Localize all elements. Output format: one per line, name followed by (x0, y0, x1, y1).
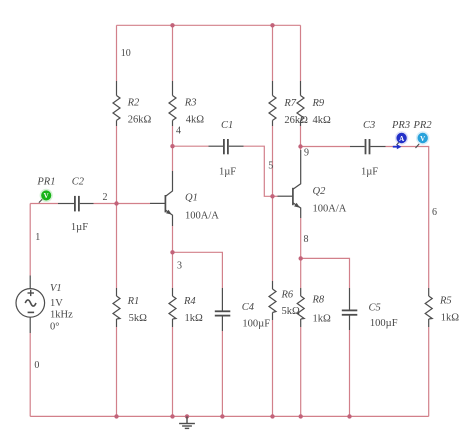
svg-text:5: 5 (268, 161, 273, 172)
junction ground rail R8 (299, 414, 303, 418)
wire R7 bottom to node 5 (272, 126, 274, 196)
wire R4 bottom to ground rail (172, 327, 174, 416)
resistor R3 (169, 81, 176, 126)
wire Q1 emitter to node 3 (172, 226, 174, 252)
junction node 5 (270, 194, 274, 198)
wire ground rail (30, 415, 429, 417)
wire node 8 to C5 (301, 258, 350, 288)
wire R3 bottom to node 4 (172, 126, 174, 146)
svg-text:100µF: 100µF (370, 318, 398, 329)
svg-text:V: V (420, 135, 425, 143)
wire node 5 to R6 (272, 196, 274, 281)
svg-text:R2: R2 (127, 97, 140, 108)
junction ground rail C5 (347, 414, 351, 418)
probe PR3 (393, 131, 409, 149)
wire node 2 to Q1 base (117, 203, 151, 205)
resistor R5 (425, 288, 432, 327)
wire node 3 to C4 (173, 252, 223, 288)
wire C5 bottom to ground rail (349, 330, 351, 416)
probe PR1 (39, 189, 53, 203)
wire Q2 emitter to node 8 (300, 218, 302, 258)
svg-text:8: 8 (304, 234, 309, 245)
wire C3 to output node 6 (386, 147, 429, 289)
svg-text:0: 0 (34, 360, 39, 371)
capacitor C4 (215, 288, 231, 331)
junction node 10 left (170, 23, 174, 27)
wire R8 bottom to ground rail (300, 327, 302, 416)
wire R2 bottom to node 2 (116, 126, 118, 204)
wire R2 top vertical (116, 25, 118, 81)
transistor Q1 (150, 171, 173, 226)
resistor R7 (269, 81, 276, 126)
svg-text:R6: R6 (281, 289, 294, 300)
svg-text:0°: 0° (50, 322, 59, 333)
wire input node 1 vertical (29, 204, 31, 276)
svg-text:R7: R7 (283, 98, 296, 109)
svg-text:26kΩ: 26kΩ (128, 114, 152, 125)
junction node 8 (299, 256, 303, 260)
capacitor C1 (209, 139, 244, 154)
svg-text:R8: R8 (312, 295, 325, 306)
wire R9 bottom to node 9 (300, 126, 302, 150)
svg-text:1: 1 (35, 232, 40, 243)
svg-text:100µF: 100µF (242, 319, 270, 330)
svg-text:1kΩ: 1kΩ (185, 313, 204, 324)
svg-text:6: 6 (432, 207, 437, 218)
svg-text:C1: C1 (221, 120, 233, 131)
wire node 3 to R4 (172, 252, 174, 288)
svg-text:1µF: 1µF (71, 222, 88, 233)
junction ground rail R1 (114, 414, 118, 418)
svg-text:PR1: PR1 (36, 177, 55, 188)
svg-text:Q2: Q2 (313, 186, 327, 197)
junction node 10 right (270, 23, 274, 27)
wire R3 top vertical (172, 25, 174, 81)
wire node 2 to R1 (116, 204, 118, 289)
svg-text:1kΩ: 1kΩ (313, 313, 332, 324)
wire top rail node 10 (117, 24, 301, 26)
wire C4 bottom to ground rail (221, 331, 223, 416)
svg-text:1kHz: 1kHz (50, 310, 73, 321)
transistor Q2 (278, 150, 301, 218)
wire R7 top vertical (272, 25, 274, 81)
svg-text:C2: C2 (72, 177, 85, 188)
wire node 4 to Q1 collector (172, 146, 174, 171)
svg-text:5kΩ: 5kΩ (282, 306, 301, 317)
svg-text:1µF: 1µF (219, 167, 236, 178)
wire R5 bottom to ground rail (428, 327, 430, 416)
svg-text:Q1: Q1 (185, 193, 198, 204)
capacitor C5 (342, 288, 358, 330)
svg-text:V1: V1 (50, 283, 62, 294)
wire V1 bottom node 0 (29, 333, 31, 416)
ground (179, 416, 195, 428)
svg-text:V: V (44, 192, 49, 200)
svg-text:10: 10 (121, 48, 131, 59)
resistor R6 (269, 281, 276, 320)
svg-text:5kΩ: 5kΩ (129, 313, 148, 324)
source V1 (16, 276, 45, 334)
svg-text:100A/A: 100A/A (313, 204, 347, 215)
resistor R4 (169, 288, 176, 327)
svg-text:26kΩ: 26kΩ (284, 115, 308, 126)
junction node 2 (114, 201, 118, 205)
svg-text:1V: 1V (50, 298, 63, 309)
wire input to C2 (30, 203, 58, 205)
svg-text:1µF: 1µF (361, 167, 378, 178)
svg-text:PR2: PR2 (413, 120, 433, 131)
wire C2 to node 2 (94, 203, 117, 205)
svg-text:R3: R3 (184, 97, 197, 108)
junction ground rail R6 (270, 414, 274, 418)
wire node 5 to Q2 base (273, 195, 278, 197)
svg-text:R5: R5 (439, 296, 452, 307)
svg-text:4kΩ: 4kΩ (186, 114, 205, 125)
wire node 8 to R8 (300, 258, 302, 288)
svg-text:4kΩ: 4kΩ (313, 115, 332, 126)
resistor R1 (113, 288, 120, 327)
capacitor C3 (350, 139, 386, 154)
svg-text:1kΩ: 1kΩ (441, 313, 460, 324)
svg-text:9: 9 (304, 148, 309, 159)
junction node 9 (298, 144, 302, 148)
wire node 4 to C1 (173, 145, 209, 147)
svg-text:C3: C3 (363, 120, 375, 131)
wire R1 bottom to ground rail (116, 327, 118, 416)
wire R6 bottom to ground rail (272, 320, 274, 416)
junction ground rail C4 (220, 414, 224, 418)
wire node 9 to C3 (301, 146, 351, 148)
svg-text:4: 4 (176, 125, 181, 136)
junction ground rail R4 (170, 414, 174, 418)
probe PR2 (416, 131, 430, 148)
junction node 4 (170, 144, 174, 148)
svg-text:R4: R4 (183, 296, 196, 307)
svg-text:100A/A: 100A/A (185, 210, 219, 221)
junction ground rail ground (185, 414, 189, 418)
resistor R9 (297, 81, 304, 126)
svg-text:A: A (399, 135, 404, 143)
svg-text:C5: C5 (369, 303, 381, 314)
svg-text:R9: R9 (312, 98, 325, 109)
junction node 3 (170, 250, 174, 254)
resistor R2 (113, 81, 120, 126)
svg-text:C4: C4 (242, 302, 255, 313)
svg-text:R1: R1 (127, 296, 140, 307)
wire R9 top vertical (300, 25, 302, 81)
wire C1 to node 5 (244, 146, 273, 196)
capacitor C2 (58, 196, 94, 212)
svg-text:PR3: PR3 (391, 120, 410, 131)
resistor R8 (297, 288, 304, 327)
svg-text:3: 3 (177, 260, 182, 271)
svg-text:2: 2 (103, 192, 108, 203)
